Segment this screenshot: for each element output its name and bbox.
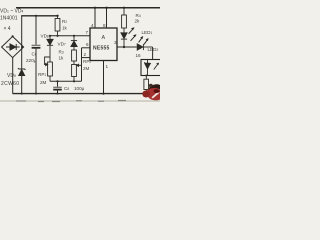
paper background	[0, 0, 160, 110]
wire bottom ground rail	[13, 93, 148, 95]
svg-text:6: 6	[86, 42, 89, 47]
svg-text:R3: R3	[59, 50, 64, 55]
svg-text:C8: C8	[64, 86, 69, 91]
svg-text:LED1: LED1	[142, 30, 153, 35]
diode VD8	[47, 36, 53, 62]
wire pin7 horizontal	[49, 35, 90, 37]
LED LED2	[137, 36, 152, 50]
svg-text:R2: R2	[62, 19, 67, 24]
label C8 100u	[64, 86, 85, 91]
wire pin4	[94, 7, 96, 28]
potentiometer RP2	[72, 64, 82, 81]
svg-text:C6: C6	[32, 52, 37, 57]
svg-text:3: 3	[114, 40, 117, 45]
svg-text:2: 2	[84, 52, 87, 57]
svg-text:2k: 2k	[135, 18, 141, 23]
wire timing node horizontal	[50, 80, 82, 82]
svg-text:1k: 1k	[59, 56, 65, 61]
svg-text:VD7: VD7	[58, 42, 66, 47]
svg-text:VD1 ~ VD4: VD1 ~ VD4	[0, 9, 24, 15]
label A NE555	[93, 35, 110, 52]
svg-text:7: 7	[86, 30, 89, 35]
svg-text:RP1: RP1	[38, 72, 46, 77]
svg-text:R4: R4	[136, 13, 141, 18]
resistor R5 below module	[144, 75, 149, 94]
svg-text:220μ: 220μ	[26, 58, 37, 63]
wire pin8	[105, 7, 107, 28]
svg-text:2CW60: 2CW60	[1, 81, 19, 87]
module box lower right	[141, 60, 162, 76]
svg-text:VD8: VD8	[41, 34, 49, 39]
svg-text:100μ: 100μ	[74, 86, 85, 91]
potentiometer RP1	[45, 57, 53, 81]
capacitor C8	[53, 81, 62, 94]
svg-text:A: A	[102, 35, 106, 41]
bridge rectifier VD1-VD4	[2, 35, 24, 57]
svg-text:2M: 2M	[83, 66, 90, 71]
wire pins 2 and 6 vertical	[82, 48, 91, 82]
diode inside module	[144, 60, 151, 76]
ground rail junction dots	[21, 93, 23, 95]
svg-text:4: 4	[91, 23, 94, 28]
label R3 1k	[59, 50, 65, 61]
resistor R4	[122, 7, 127, 28]
capacitor C6	[32, 15, 41, 95]
op-amp U1 555 IC box	[90, 28, 117, 61]
label R2 1k	[62, 19, 68, 31]
wire bridge bottom to ground	[12, 58, 14, 94]
resistor R3	[72, 50, 77, 65]
red watermark stamp	[142, 84, 160, 101]
label RP2 2M	[83, 59, 91, 71]
svg-text:× 4: × 4	[4, 26, 11, 32]
diode VD7	[71, 36, 77, 50]
label VD1~VD4 1N4001 x4	[0, 9, 24, 33]
wire second rail	[21, 15, 58, 17]
svg-text:8: 8	[103, 23, 106, 28]
label VD5 2CW60	[1, 73, 19, 87]
label RP1 2M	[38, 72, 47, 85]
svg-text:1N4001: 1N4001	[0, 16, 18, 22]
svg-text:1: 1	[106, 64, 109, 69]
arrow inside module	[154, 63, 159, 70]
label R4 2k	[135, 13, 141, 23]
zener VD5	[18, 68, 26, 75]
svg-text:NE555: NE555	[93, 46, 110, 52]
wire VCC top rail	[16, 7, 160, 9]
svg-text:1k: 1k	[62, 26, 68, 31]
resistor R2	[55, 15, 60, 36]
wire pin3 output	[117, 46, 137, 48]
svg-text:16: 16	[136, 53, 142, 58]
svg-text:2M: 2M	[40, 80, 47, 85]
LED LED1	[121, 28, 136, 48]
wire LED2 to box	[152, 47, 154, 60]
faint caption line at bottom	[0, 100, 160, 102]
label C6 220u	[26, 52, 37, 64]
wire pin1 ground	[102, 61, 104, 95]
wire left vertical (bridge + / zener column)	[21, 16, 23, 69]
